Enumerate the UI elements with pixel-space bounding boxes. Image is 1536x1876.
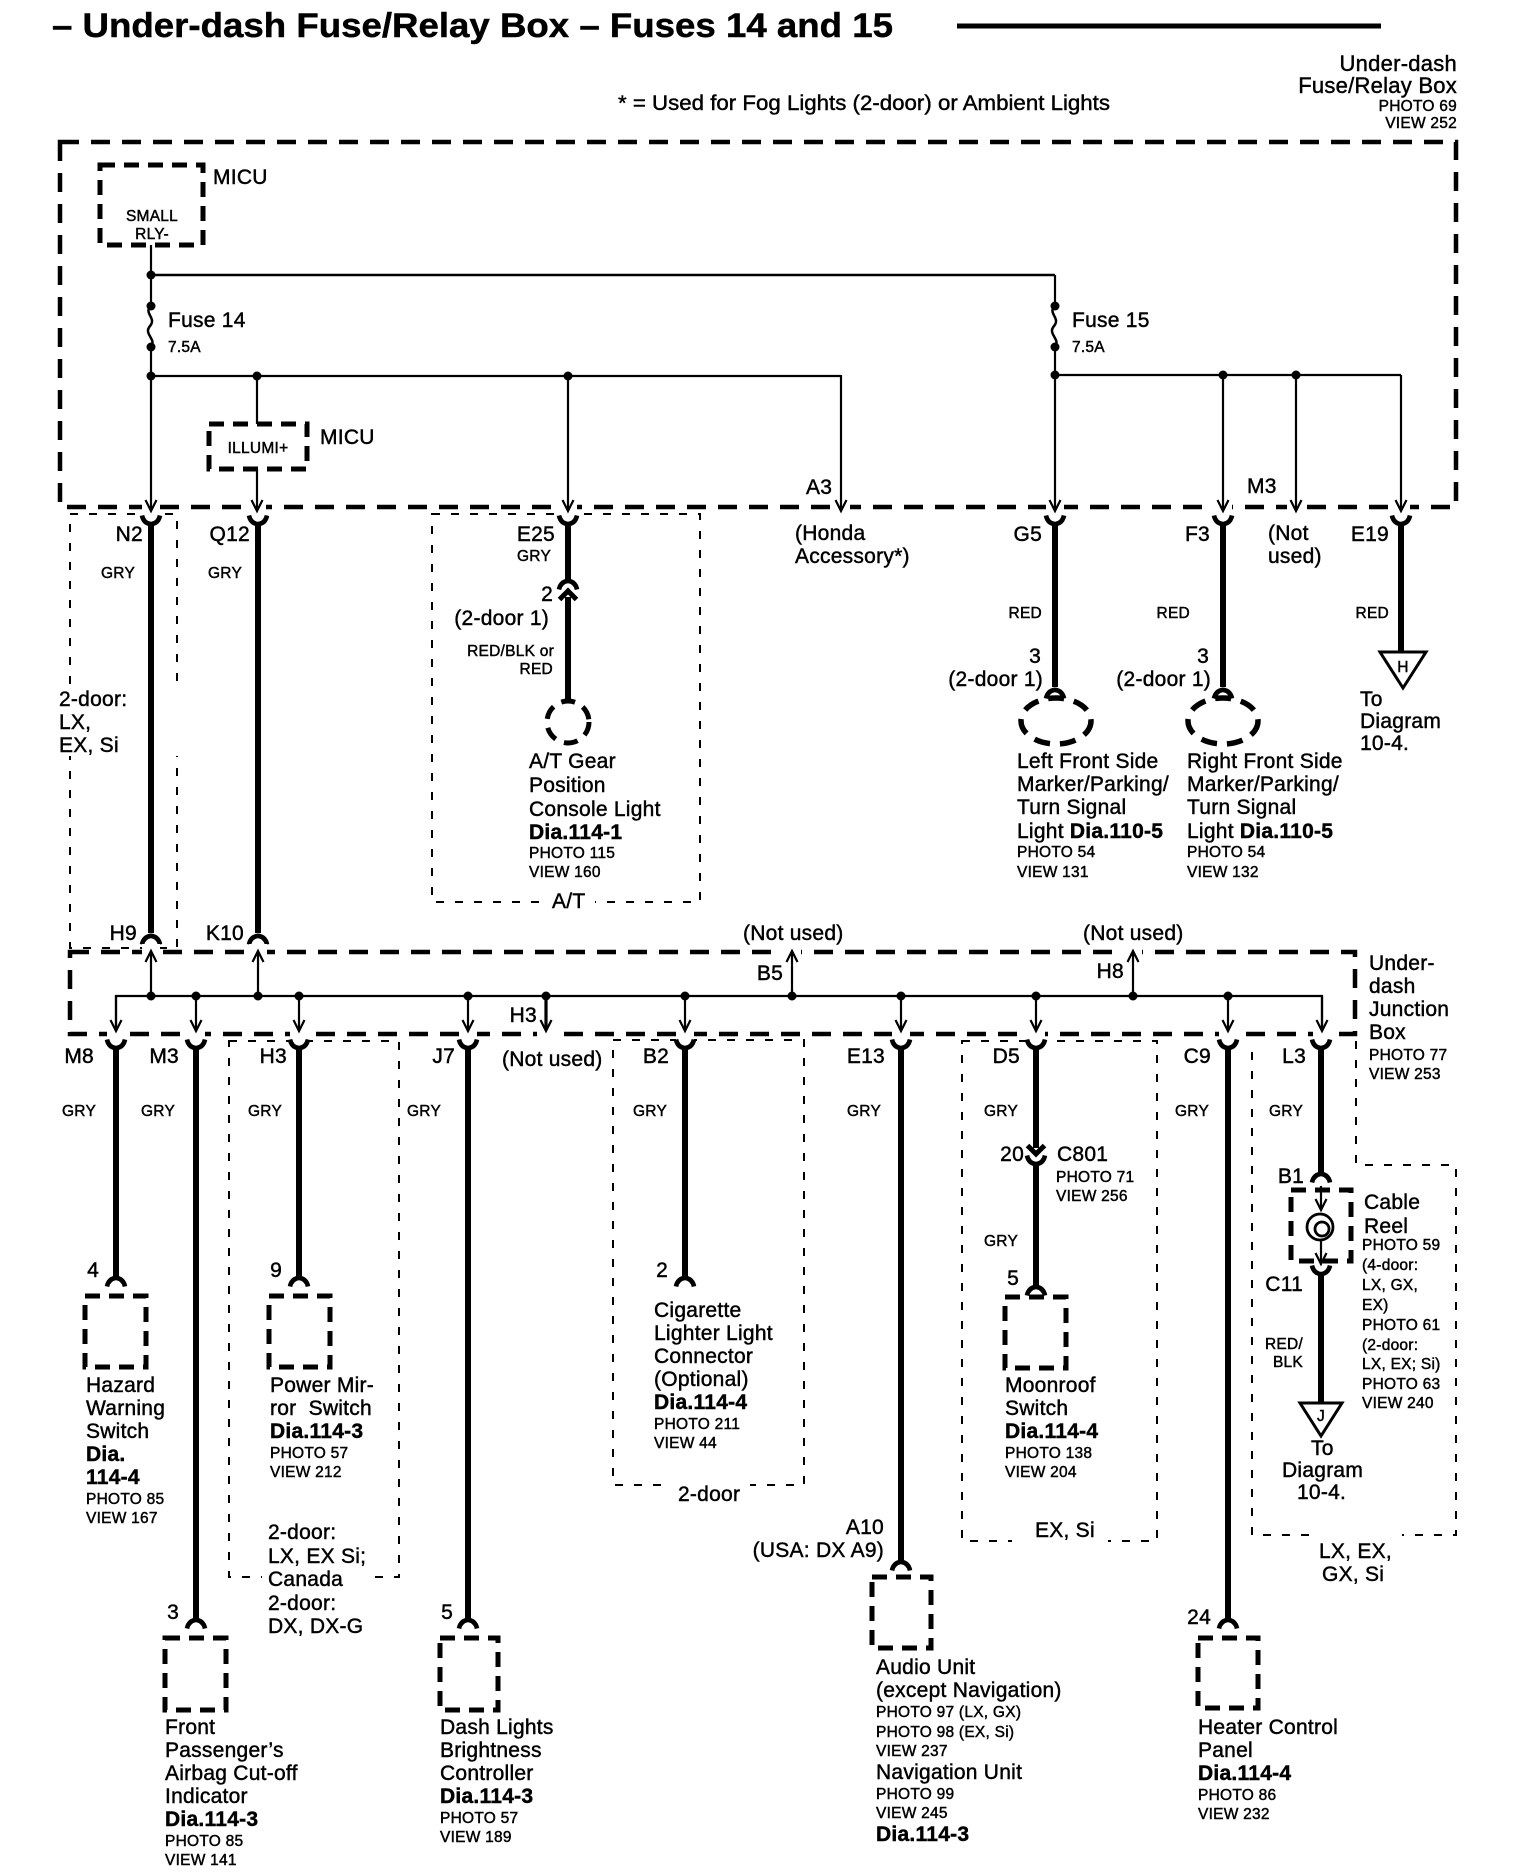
header label Under-dash Fuse/Relay Box (1298, 51, 1457, 132)
wire N2 (GRY) (101, 524, 151, 933)
svg-text:RED: RED (520, 661, 553, 678)
svg-text:PHOTO 54: PHOTO 54 (1017, 844, 1096, 861)
svg-text:PHOTO 85: PHOTO 85 (165, 1833, 243, 1850)
title (52, 7, 1381, 45)
svg-text:Fuse/Relay Box: Fuse/Relay Box (1298, 73, 1457, 98)
svg-text:VIEW 252: VIEW 252 (1385, 115, 1457, 132)
svg-text:RED/: RED/ (1265, 1336, 1303, 1353)
svg-text:(4-door:: (4-door: (1362, 1257, 1418, 1274)
svg-text:2: 2 (541, 583, 553, 606)
svg-text:RED: RED (1009, 605, 1042, 622)
svg-text:GRY: GRY (1269, 1103, 1303, 1120)
svg-text:PHOTO 57: PHOTO 57 (440, 1810, 518, 1827)
connector B1 (1278, 1165, 1330, 1188)
svg-text:H3: H3 (260, 1045, 287, 1068)
svg-text:EX, Si: EX, Si (1035, 1519, 1095, 1542)
pin 3 / front passenger airbag cut-off indicator (165, 1601, 298, 1869)
off-page connector H to diagram 10-4 (1360, 652, 1441, 755)
svg-text:Dia.114-4: Dia.114-4 (1198, 1762, 1291, 1785)
connector K10 (206, 922, 267, 945)
svg-text:BLK: BLK (1273, 1354, 1303, 1371)
svg-text:PHOTO 85: PHOTO 85 (86, 1491, 164, 1508)
svg-text:VIEW 204: VIEW 204 (1005, 1464, 1077, 1481)
svg-text:H9: H9 (110, 922, 137, 945)
svg-text:Heater Control: Heater Control (1198, 1716, 1338, 1739)
svg-text:M8: M8 (64, 1045, 94, 1068)
svg-text:Dash Lights: Dash Lights (440, 1716, 554, 1739)
wire E25 upper (GRY) (517, 524, 568, 581)
wire G5 (RED) (948, 524, 1064, 699)
pin 9 / power mirror switch (269, 1259, 374, 1481)
svg-text:LX, GX,: LX, GX, (1362, 1277, 1418, 1294)
svg-text:VIEW 44: VIEW 44 (654, 1435, 717, 1452)
svg-text:Light Dia.110-5: Light Dia.110-5 (1017, 820, 1163, 843)
label Under-dash Junction Box (1369, 952, 1449, 1083)
svg-text:RED: RED (1157, 605, 1190, 622)
svg-text:3: 3 (1029, 645, 1041, 668)
svg-text:Console Light: Console Light (529, 798, 661, 821)
svg-text:PHOTO 61: PHOTO 61 (1362, 1317, 1440, 1334)
label 2-door LX EX Si Canada DX DX-G (262, 1520, 366, 1642)
svg-text:EX, Si: EX, Si (59, 734, 119, 757)
svg-text:VIEW 256: VIEW 256 (1056, 1188, 1128, 1205)
svg-text:– Under-dash Fuse/Relay Box –: – Under-dash Fuse/Relay Box – Fuses 14 a… (52, 7, 893, 45)
connector E25 (517, 516, 577, 547)
svg-text:PHOTO 59: PHOTO 59 (1362, 1237, 1440, 1254)
svg-text:Dia.114-3: Dia.114-3 (876, 1823, 969, 1846)
connector N2 (116, 516, 160, 547)
node bus right (1051, 371, 1060, 380)
svg-text:114-4: 114-4 (86, 1466, 140, 1489)
wire E13 (GRY) (847, 1048, 901, 1560)
svg-text:Cigarette: Cigarette (654, 1299, 741, 1322)
svg-text:Dia.114-3: Dia.114-3 (165, 1808, 258, 1831)
wire A3 drop (840, 375, 842, 509)
svg-text:Lighter Light: Lighter Light (654, 1322, 773, 1345)
wire C9 (GRY) (1175, 1048, 1228, 1618)
svg-text:PHOTO 57: PHOTO 57 (270, 1445, 348, 1462)
wire J7 (GRY) (407, 1048, 468, 1618)
wire H3 (GRY) (248, 1048, 299, 1276)
wire F3 (RED) (1116, 524, 1232, 699)
node E25 feed (564, 372, 573, 381)
svg-text:Q12: Q12 (210, 523, 250, 546)
svg-text:LX, EX,: LX, EX, (1319, 1540, 1392, 1563)
svg-text:3: 3 (167, 1601, 179, 1624)
wire E25 lower (RED/BLK or RED) (467, 597, 568, 700)
svg-text:5: 5 (441, 1601, 453, 1624)
svg-text:10-4.: 10-4. (1297, 1481, 1346, 1504)
svg-text:GRY: GRY (633, 1103, 667, 1120)
arrow down H3 (294, 992, 305, 1032)
svg-text:Front: Front (165, 1716, 215, 1739)
wire fuse14 to lower bus (150, 347, 152, 376)
svg-text:3: 3 (1197, 645, 1209, 668)
region A/T (E25 column) (432, 514, 700, 913)
svg-text:GRY: GRY (1175, 1103, 1209, 1120)
svg-text:2-door:: 2-door: (268, 1592, 336, 1615)
arrow down M3 (191, 992, 202, 1032)
svg-text:D5: D5 (993, 1045, 1020, 1068)
svg-text:VIEW 212: VIEW 212 (270, 1464, 342, 1481)
svg-text:(Optional): (Optional) (654, 1368, 749, 1391)
svg-text:Reel: Reel (1364, 1215, 1408, 1238)
svg-text:GRY: GRY (101, 565, 135, 582)
pin 4 / hazard warning switch (85, 1259, 165, 1527)
svg-text:To: To (1311, 1437, 1334, 1460)
svg-text:RLY-: RLY- (135, 226, 169, 243)
wire to ILLUMI+ (256, 376, 258, 424)
junction bus wire (116, 996, 1322, 1031)
connector M8 (64, 1040, 125, 1069)
svg-text:Accessory*): Accessory*) (795, 545, 910, 568)
wire E25 drop (567, 376, 569, 509)
svg-text:Dia.: Dia. (86, 1443, 126, 1466)
svg-text:J: J (1317, 1408, 1325, 1425)
svg-text:J7: J7 (432, 1045, 455, 1068)
region 2-door (B2 column) (613, 1040, 804, 1506)
svg-text:MICU: MICU (213, 166, 268, 189)
svg-text:RED: RED (1356, 605, 1389, 622)
svg-text:2: 2 (656, 1259, 668, 1282)
svg-text:Power Mir-: Power Mir- (270, 1374, 374, 1397)
bus wire (fuse 15 side) (1055, 374, 1401, 376)
connector A10 (USA: DX A9) / audio unit (753, 1516, 1062, 1846)
svg-text:10-4.: 10-4. (1360, 732, 1409, 755)
wire N2 drop (150, 376, 152, 509)
svg-text:B5: B5 (757, 962, 783, 985)
svg-text:(2-door 1): (2-door 1) (1116, 668, 1211, 691)
svg-text:PHOTO 54: PHOTO 54 (1187, 844, 1266, 861)
arrow up H8 (Not used) (1083, 922, 1184, 1001)
connector J7 (432, 1040, 477, 1069)
svg-text:* = Used for Fog Lights (2-doo: * = Used for Fog Lights (2-door) or Ambi… (618, 91, 1110, 115)
node ILLUMI feed (253, 372, 262, 381)
svg-text:Indicator: Indicator (165, 1785, 248, 1808)
in-line connector C801 pin 20 (1000, 1143, 1134, 1205)
svg-text:PHOTO 97 (LX, GX): PHOTO 97 (LX, GX) (876, 1704, 1021, 1721)
svg-text:C11: C11 (1265, 1273, 1303, 1296)
svg-text:Right Front Side: Right Front Side (1187, 750, 1343, 773)
svg-text:EX): EX) (1362, 1297, 1389, 1314)
svg-text:VIEW 245: VIEW 245 (876, 1805, 948, 1822)
svg-text:RED/BLK or: RED/BLK or (467, 643, 554, 660)
svg-text:Connector: Connector (654, 1345, 753, 1368)
connector M3 (149, 1040, 205, 1069)
svg-text:7.5A: 7.5A (168, 339, 201, 356)
svg-text:2-door:: 2-door: (268, 1521, 336, 1544)
svg-text:VIEW 167: VIEW 167 (86, 1510, 158, 1527)
svg-text:VIEW 131: VIEW 131 (1017, 864, 1089, 881)
svg-text:N2: N2 (116, 523, 143, 546)
svg-text:GX, Si: GX, Si (1322, 1563, 1384, 1586)
svg-text:PHOTO 77: PHOTO 77 (1369, 1047, 1447, 1064)
svg-text:VIEW 253: VIEW 253 (1369, 1066, 1441, 1083)
under-dash junction box (dashed border) (70, 952, 1355, 1034)
lamp A/T gear position console light (529, 701, 661, 881)
svg-text:GRY: GRY (984, 1103, 1018, 1120)
svg-text:Cable: Cable (1364, 1191, 1420, 1214)
svg-text:Dia.114-3: Dia.114-3 (440, 1785, 533, 1808)
svg-text:Switch: Switch (86, 1420, 149, 1443)
svg-text:(USA: DX A9): (USA: DX A9) (753, 1539, 884, 1562)
svg-text:2-door: 2-door (678, 1483, 740, 1506)
svg-text:GRY: GRY (847, 1103, 881, 1120)
svg-text:(2-door:: (2-door: (1362, 1337, 1418, 1354)
svg-text:PHOTO 71: PHOTO 71 (1056, 1169, 1134, 1186)
connector H3 (260, 1040, 308, 1069)
svg-text:H: H (1397, 659, 1408, 676)
svg-text:7.5A: 7.5A (1072, 339, 1105, 356)
svg-text:(Not: (Not (1268, 522, 1309, 545)
region H3 column (229, 1041, 399, 1577)
svg-text:Switch: Switch (1005, 1397, 1068, 1420)
svg-text:Left Front Side: Left Front Side (1017, 750, 1159, 773)
wire M8 (GRY) (62, 1048, 116, 1276)
region 2-door LX EX Si (N2 column) (56, 514, 178, 948)
node F3 (1219, 371, 1228, 380)
wire F3 drop (1222, 375, 1224, 509)
wire M3 (GRY) (141, 1048, 196, 1618)
svg-text:L3: L3 (1282, 1045, 1306, 1068)
svg-text:Light Dia.110-5: Light Dia.110-5 (1187, 820, 1333, 843)
wire SMALL RLY- to bus (150, 245, 152, 305)
svg-text:K10: K10 (206, 922, 244, 945)
svg-text:Passenger’s: Passenger’s (165, 1739, 284, 1762)
svg-text:24: 24 (1187, 1606, 1211, 1629)
svg-text:(Not used): (Not used) (1083, 922, 1184, 945)
lower bus wire (fuse 14 side) (151, 375, 841, 377)
svg-text:used): used) (1268, 545, 1322, 568)
svg-text:E13: E13 (847, 1045, 885, 1068)
in-line connector 2 (2-door 1) (454, 581, 577, 630)
connector C11 (1265, 1266, 1330, 1297)
MICU (SMALL RLY-) (100, 165, 268, 245)
svg-text:(Not used): (Not used) (743, 922, 844, 945)
wire Q12 (GRY) (208, 524, 258, 933)
wire B2 (GRY) (633, 1048, 685, 1276)
wire M3 drop (not used) (1295, 375, 1297, 509)
svg-text:B2: B2 (643, 1045, 669, 1068)
svg-text:PHOTO 99: PHOTO 99 (876, 1786, 954, 1803)
arrow up H9 (146, 951, 157, 1001)
svg-text:SMALL: SMALL (126, 208, 178, 225)
svg-text:Hazard: Hazard (86, 1374, 155, 1397)
svg-text:VIEW 160: VIEW 160 (529, 864, 601, 881)
connector B2 (643, 1040, 694, 1069)
arrow down D5 (1031, 992, 1042, 1032)
svg-text:GRY: GRY (517, 548, 551, 565)
arrow down J7 (463, 992, 474, 1032)
region EX, Si (D5 column) (962, 1041, 1157, 1544)
svg-text:Audio Unit: Audio Unit (876, 1656, 975, 1679)
arrow up K10 (253, 951, 264, 1001)
svg-text:Warning: Warning (86, 1397, 165, 1420)
svg-text:F3: F3 (1185, 523, 1210, 546)
svg-text:PHOTO 86: PHOTO 86 (1198, 1787, 1276, 1804)
svg-text:MICU: MICU (320, 426, 375, 449)
svg-text:Dia.114-1: Dia.114-1 (529, 821, 622, 844)
svg-text:Canada: Canada (268, 1568, 343, 1591)
svg-text:GRY: GRY (984, 1233, 1018, 1250)
svg-text:B1: B1 (1278, 1165, 1304, 1188)
svg-text:dash: dash (1369, 975, 1416, 998)
fuse F14 7.5A (147, 302, 246, 357)
svg-text:Navigation Unit: Navigation Unit (876, 1761, 1022, 1784)
svg-text:5: 5 (1007, 1267, 1019, 1290)
svg-text:Airbag Cut-off: Airbag Cut-off (165, 1762, 298, 1785)
svg-text:M3: M3 (1247, 475, 1277, 498)
junction border gaps (107, 944, 1331, 1042)
connector C9 (1184, 1040, 1237, 1069)
wire ILLUMI+ to Q12 (256, 469, 258, 509)
svg-text:DX, DX-G: DX, DX-G (268, 1615, 363, 1638)
node fuse14 top (147, 271, 156, 280)
svg-text:9: 9 (270, 1259, 282, 1282)
arrow down E13 (896, 992, 907, 1032)
svg-text:A10: A10 (846, 1516, 884, 1539)
svg-text:(2-door 1): (2-door 1) (948, 668, 1043, 691)
svg-text:M3: M3 (149, 1045, 179, 1068)
svg-text:4: 4 (87, 1259, 99, 1282)
wire D5 lower (GRY) (984, 1164, 1036, 1285)
lamp left front side marker light (1017, 698, 1169, 881)
connector E19 (1351, 516, 1410, 547)
svg-text:PHOTO 138: PHOTO 138 (1005, 1445, 1092, 1462)
svg-text:Moonroof: Moonroof (1005, 1374, 1096, 1397)
bus wire to fuse 15 (151, 274, 1055, 277)
svg-text:E25: E25 (517, 523, 555, 546)
svg-text:(2-door 1): (2-door 1) (454, 607, 549, 630)
svg-text:Diagram: Diagram (1282, 1459, 1363, 1482)
svg-text:C801: C801 (1057, 1143, 1108, 1166)
svg-text:GRY: GRY (208, 565, 242, 582)
pin 5 / moonroof switch (1005, 1267, 1098, 1481)
svg-text:A/T Gear: A/T Gear (529, 750, 616, 773)
connector D5 (993, 1040, 1045, 1069)
svg-text:H3: H3 (510, 1004, 537, 1027)
svg-text:PHOTO 98 (EX, Si): PHOTO 98 (EX, Si) (876, 1724, 1014, 1741)
wire L3 (GRY) (1269, 1048, 1321, 1172)
connector L3 (1282, 1040, 1330, 1069)
svg-text:VIEW 237: VIEW 237 (876, 1743, 948, 1760)
node M3 (1292, 371, 1301, 380)
wire D5 (GRY) (984, 1048, 1036, 1148)
svg-text:Turn Signal: Turn Signal (1017, 796, 1126, 819)
cable reel (1291, 1186, 1441, 1412)
svg-text:A/T: A/T (552, 890, 585, 913)
svg-text:Marker/Parking/: Marker/Parking/ (1187, 773, 1339, 796)
svg-text:(Not used): (Not used) (502, 1048, 603, 1071)
wire E19 drop (1400, 375, 1402, 509)
svg-text:G5: G5 (1013, 523, 1042, 546)
svg-text:VIEW 132: VIEW 132 (1187, 864, 1259, 881)
pin 2 / cigarette lighter light connector (654, 1259, 773, 1452)
connector E13 (847, 1040, 910, 1069)
MICU (ILLUMI+) (209, 424, 375, 469)
svg-text:GRY: GRY (407, 1103, 441, 1120)
svg-text:Controller: Controller (440, 1762, 534, 1785)
arrow down H3nu (541, 992, 552, 1032)
svg-text:Panel: Panel (1198, 1739, 1253, 1762)
svg-text:Dia.114-4: Dia.114-4 (1005, 1420, 1098, 1443)
connector F3 (1185, 516, 1232, 547)
svg-text:VIEW 240: VIEW 240 (1362, 1395, 1434, 1412)
svg-text:Turn Signal: Turn Signal (1187, 796, 1296, 819)
lamp right front side marker light (1187, 698, 1343, 881)
arrow down B2 (680, 992, 691, 1032)
svg-text:(except Navigation): (except Navigation) (876, 1679, 1062, 1702)
svg-text:LX, EX; Si): LX, EX; Si) (1362, 1356, 1441, 1373)
svg-text:E19: E19 (1351, 523, 1389, 546)
wire G5 drop (1054, 375, 1056, 509)
connector Q12 (210, 516, 267, 547)
svg-text:PHOTO 115: PHOTO 115 (529, 845, 615, 862)
svg-text:PHOTO 63: PHOTO 63 (1362, 1376, 1440, 1393)
svg-text:Marker/Parking/: Marker/Parking/ (1017, 773, 1169, 796)
svg-text:VIEW 141: VIEW 141 (165, 1852, 237, 1869)
wire fuse15 to bus (1054, 347, 1056, 375)
arrow down C9 (1223, 992, 1234, 1032)
svg-text:PHOTO 69: PHOTO 69 (1379, 98, 1457, 115)
svg-text:GRY: GRY (248, 1103, 282, 1120)
svg-text:Diagram: Diagram (1360, 710, 1441, 733)
svg-text:Position: Position (529, 774, 606, 797)
arrow down L3 (1317, 996, 1328, 1031)
svg-text:Fuse 14: Fuse 14 (168, 309, 246, 332)
off-page connector J to diagram 10-4 (1282, 1403, 1363, 1504)
border gaps at wire crossings (142, 500, 1410, 522)
svg-text:C9: C9 (1184, 1045, 1211, 1068)
wire C11 (RED/BLK) (1265, 1274, 1321, 1402)
svg-text:A3: A3 (806, 476, 832, 499)
svg-text:Fuse 15: Fuse 15 (1072, 309, 1150, 332)
connector H9 (110, 922, 160, 945)
svg-text:Under-: Under- (1369, 952, 1435, 975)
fuse F15 7.5A (1051, 302, 1150, 357)
svg-text:20: 20 (1000, 1143, 1024, 1166)
arrow down M8 (111, 996, 122, 1031)
wire fuse15 riser (1054, 275, 1056, 306)
svg-text:GRY: GRY (62, 1103, 96, 1120)
svg-text:VIEW 189: VIEW 189 (440, 1829, 512, 1846)
svg-text:ILLUMI+: ILLUMI+ (228, 440, 289, 457)
svg-text:GRY: GRY (141, 1103, 175, 1120)
svg-text:2-door:: 2-door: (59, 688, 127, 711)
arrow up B5 (Not used) (743, 922, 844, 1001)
wire E19 (RED) (1356, 524, 1401, 652)
pin 24 / heater control panel (1187, 1606, 1338, 1823)
svg-text:ror Switch: ror Switch (270, 1397, 372, 1420)
region LX EX GX Si (L3 column) (1252, 1041, 1456, 1588)
svg-text:(Honda: (Honda (795, 522, 865, 545)
svg-text:H8: H8 (1097, 960, 1124, 983)
svg-text:Box: Box (1369, 1021, 1406, 1044)
svg-text:LX,: LX, (59, 711, 91, 734)
svg-text:Dia.114-4: Dia.114-4 (654, 1391, 747, 1414)
svg-text:Dia.114-3: Dia.114-3 (270, 1420, 363, 1443)
svg-text:Brightness: Brightness (440, 1739, 542, 1762)
svg-text:To: To (1360, 688, 1383, 711)
svg-text:Junction: Junction (1369, 998, 1449, 1021)
node lower bus left (147, 372, 156, 381)
pin 5 / dash lights brightness controller (440, 1601, 554, 1846)
svg-text:PHOTO 211: PHOTO 211 (654, 1416, 740, 1433)
connector G5 (1013, 516, 1064, 547)
svg-text:VIEW 232: VIEW 232 (1198, 1806, 1270, 1823)
under-dash fuse/relay box (dashed border) (60, 142, 1456, 507)
svg-text:LX, EX Si;: LX, EX Si; (268, 1545, 366, 1568)
